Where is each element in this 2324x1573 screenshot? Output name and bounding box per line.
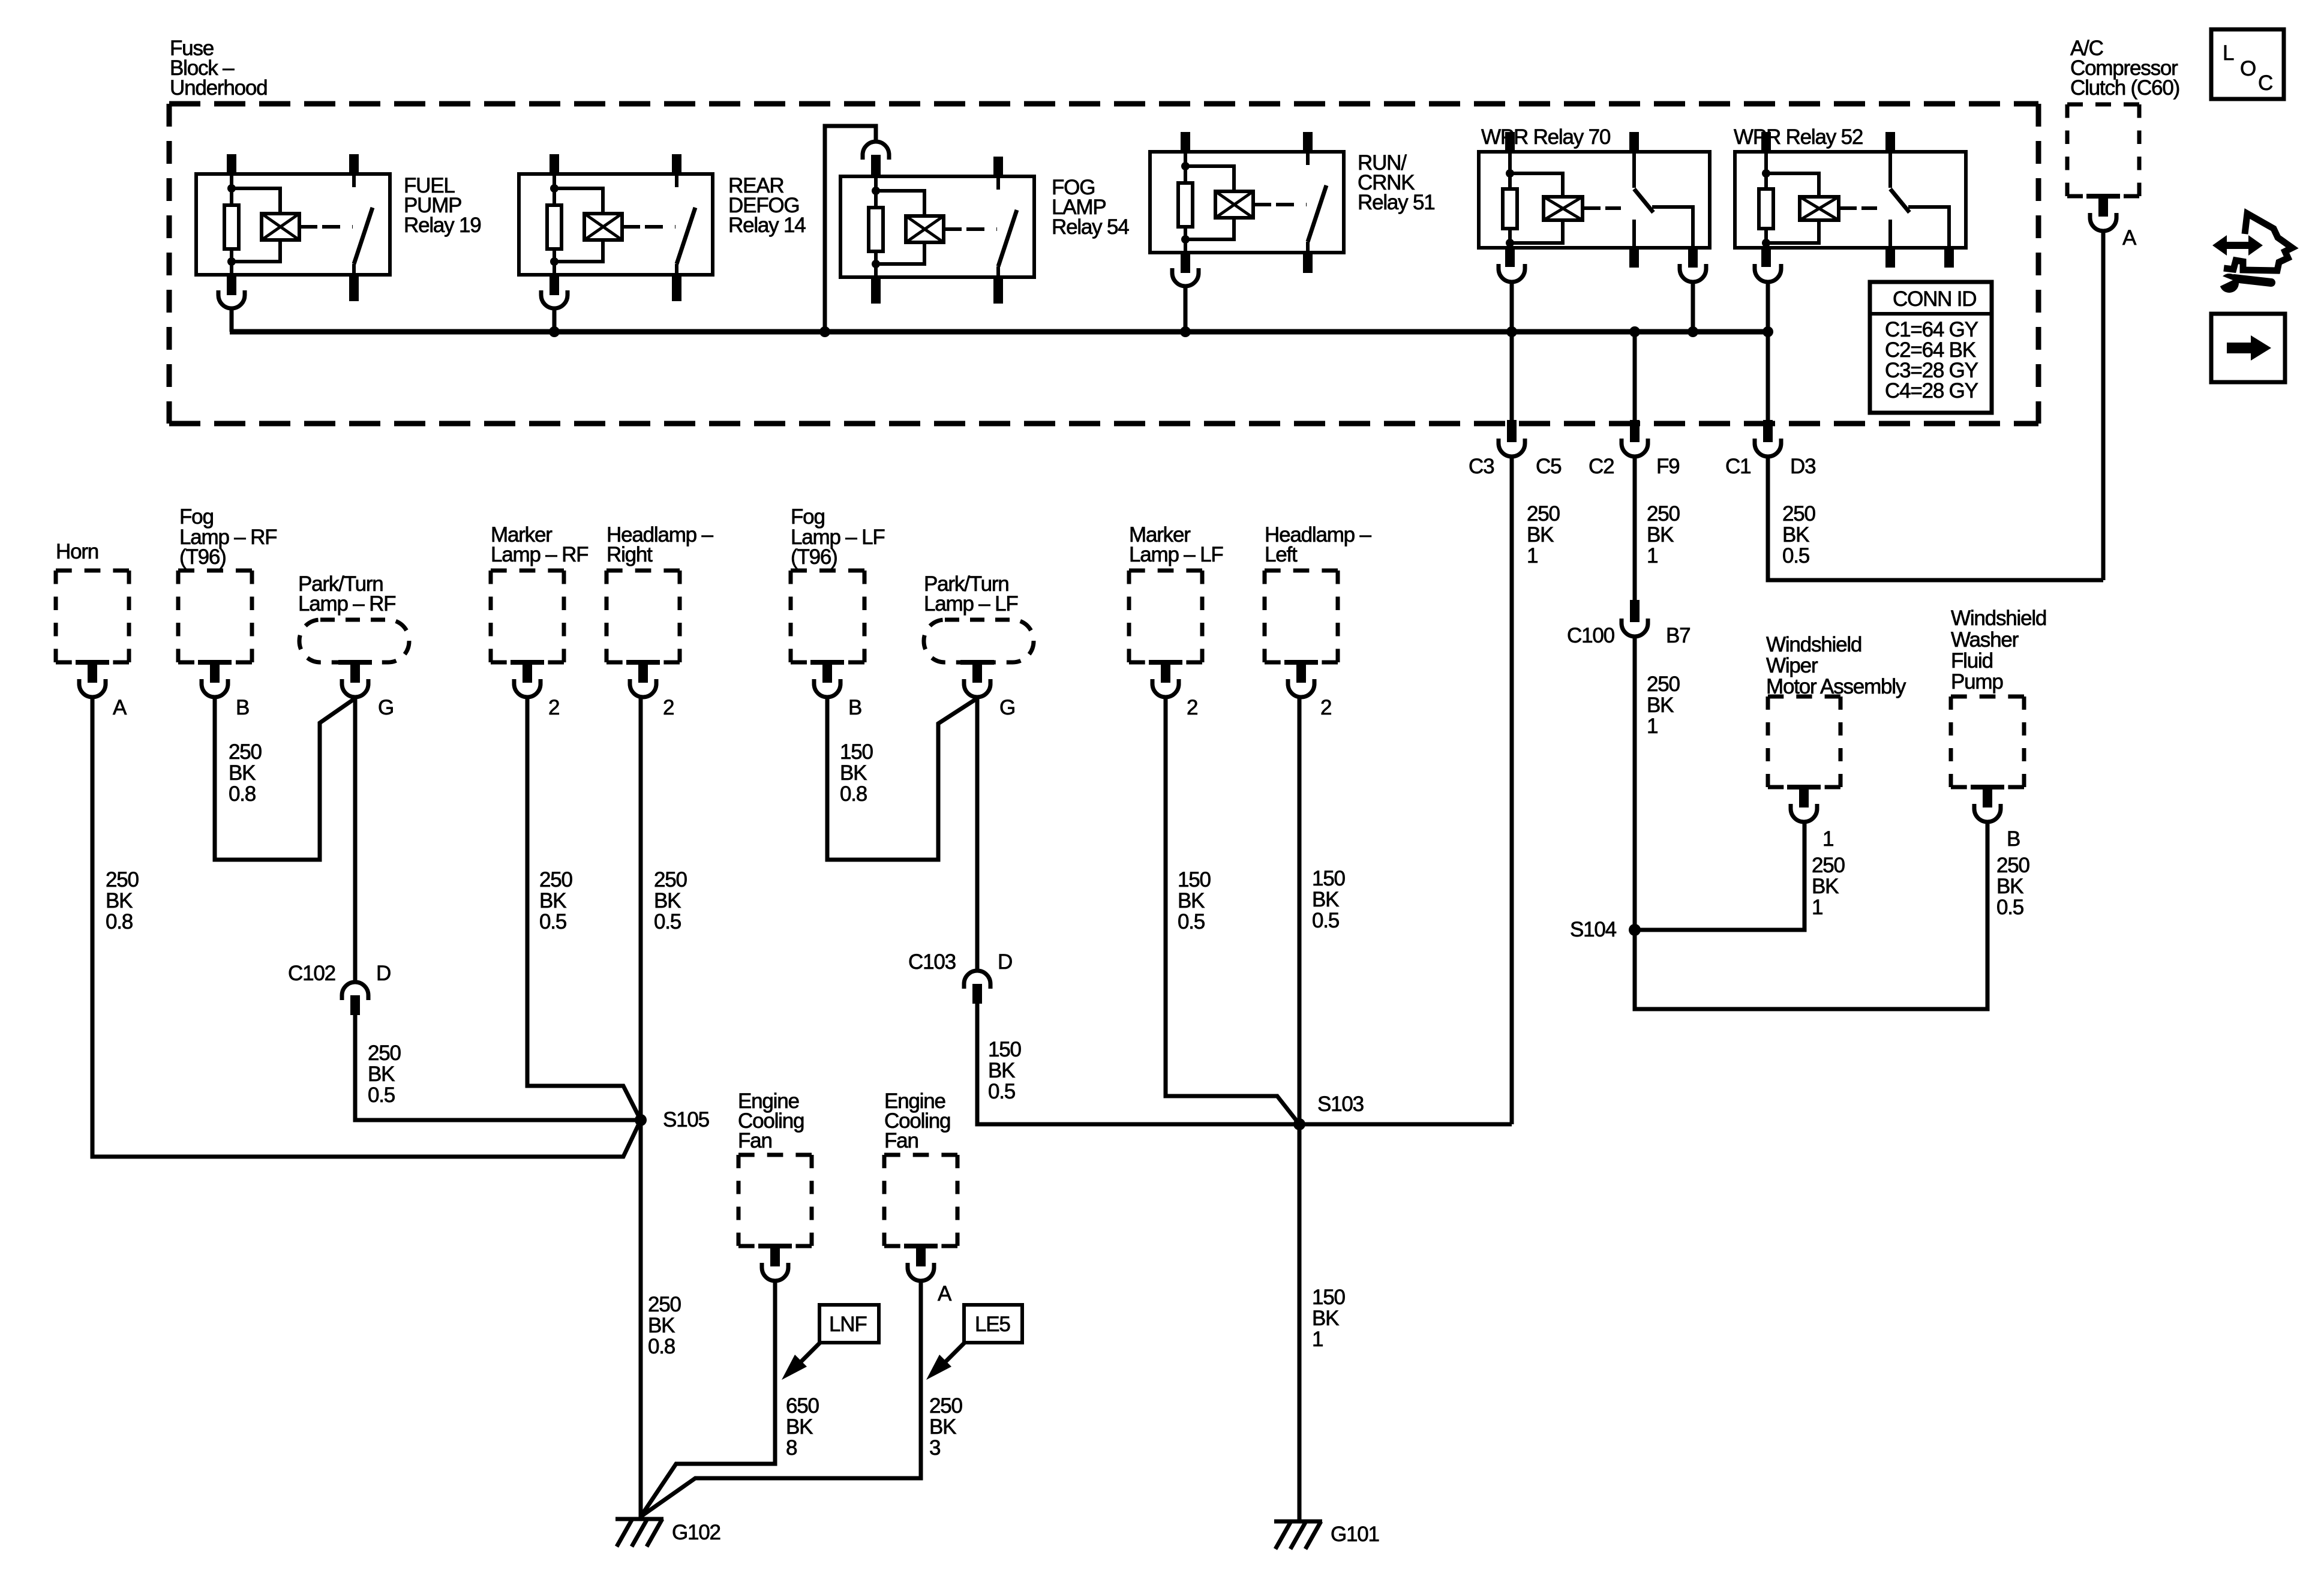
svg-text:LNF: LNF xyxy=(829,1313,867,1336)
svg-text:(T96): (T96) xyxy=(179,545,226,569)
svg-text:250: 250 xyxy=(368,1041,401,1065)
Headlamp Right label xyxy=(606,523,713,566)
svg-text:2: 2 xyxy=(548,696,559,719)
svg-text:Washer: Washer xyxy=(1951,628,2019,652)
wire riser from bus to relay 54 top xyxy=(825,126,876,332)
svg-text:G102: G102 xyxy=(672,1521,720,1544)
svg-text:G: G xyxy=(999,696,1015,719)
svg-text:Wiper: Wiper xyxy=(1766,654,1818,677)
Fog Lamp RF box xyxy=(178,571,252,697)
svg-text:G101: G101 xyxy=(1331,1523,1379,1546)
svg-text:150: 150 xyxy=(1312,1286,1346,1309)
service icon: double arrow xyxy=(2212,235,2263,256)
svg-text:0.5: 0.5 xyxy=(1312,909,1339,932)
connector below relay 14 xyxy=(541,290,568,308)
svg-text:BK: BK xyxy=(1996,875,2023,898)
relay 70 WPR xyxy=(1479,132,1710,268)
svg-text:D3: D3 xyxy=(1790,455,1815,478)
svg-text:Underhood: Underhood xyxy=(170,76,267,100)
svg-text:C4=28 GY: C4=28 GY xyxy=(1885,379,1978,403)
svg-text:0.8: 0.8 xyxy=(229,782,256,806)
relay 52 WPR xyxy=(1735,132,1966,268)
svg-text:0.5: 0.5 xyxy=(988,1080,1015,1103)
bus junction at x=1375 xyxy=(819,326,830,337)
svg-text:BK: BK xyxy=(654,889,681,912)
svg-text:BK: BK xyxy=(786,1415,813,1439)
Headlamp Right box xyxy=(606,571,680,697)
svg-text:Fluid: Fluid xyxy=(1951,649,1993,673)
bus junction at x=2520 xyxy=(1506,326,1517,337)
wire C103 to S103 (150 BK 0.5) xyxy=(977,1002,1299,1124)
svg-text:2: 2 xyxy=(663,696,674,719)
Headlamp Left box xyxy=(1265,571,1338,697)
svg-text:150: 150 xyxy=(1312,867,1346,890)
Marker Lamp RF label xyxy=(491,523,588,566)
wire headlamp left to S103 (150 BK 0.5) xyxy=(1298,697,1302,1124)
wire label 650 BK 8 (fan 1) xyxy=(786,1394,819,1460)
svg-text:150: 150 xyxy=(1178,868,1211,891)
svg-text:C100: C100 xyxy=(1567,624,1615,647)
wire C5 horizontal into S103 xyxy=(1299,1122,1512,1127)
svg-text:250: 250 xyxy=(648,1293,681,1316)
Windshield Washer Fluid Pump label xyxy=(1951,607,2046,694)
svg-text:Lamp – RF: Lamp – RF xyxy=(298,592,395,616)
wire label 250 BK 0.8 (S105-G102) xyxy=(648,1293,681,1358)
svg-text:Windshield: Windshield xyxy=(1766,633,1861,656)
wire relay 70 switch to ground bus xyxy=(1691,281,1695,332)
Engine Cooling Fan 1 box xyxy=(738,1155,812,1281)
svg-text:Windshield: Windshield xyxy=(1951,607,2046,630)
svg-text:BK: BK xyxy=(929,1415,956,1439)
svg-text:B7: B7 xyxy=(1666,624,1690,647)
CONN ID table xyxy=(1870,282,1992,413)
connector below relay 70 switch output xyxy=(1680,264,1706,282)
svg-text:250: 250 xyxy=(106,868,139,891)
connector C103 xyxy=(964,971,990,1004)
svg-text:S105: S105 xyxy=(663,1108,709,1131)
wire F9 down (250 BK 1) xyxy=(1633,455,1637,600)
Windshield Wiper Motor Assembly label xyxy=(1766,633,1906,698)
svg-text:B: B xyxy=(848,696,861,719)
svg-text:BK: BK xyxy=(648,1314,675,1337)
svg-text:1: 1 xyxy=(1647,544,1658,568)
svg-text:WPR Relay 52: WPR Relay 52 xyxy=(1734,125,1863,149)
splice S103 xyxy=(1293,1118,1305,1130)
wire label 250 BK 0.8 (fog RF) xyxy=(229,740,262,806)
connector below relay 51 xyxy=(1172,268,1199,286)
wire label 250 BK 0.8 (horn) xyxy=(106,868,139,933)
svg-text:S104: S104 xyxy=(1570,918,1617,941)
relay 52 label xyxy=(1734,125,1863,149)
svg-text:BK: BK xyxy=(988,1059,1015,1082)
wire S104 to washer pump xyxy=(1635,821,1987,1009)
wire relay 19 to ground bus xyxy=(230,307,234,332)
wire relay 52 coil to ground bus xyxy=(1766,281,1770,332)
service icon: car outline xyxy=(2224,214,2292,271)
LE5 tag box xyxy=(964,1305,1022,1343)
svg-text:D: D xyxy=(376,962,391,985)
wire label 150 BK 0.5 (C103) xyxy=(988,1038,1022,1103)
wire C5 down (250 BK 1) xyxy=(1510,455,1514,1124)
svg-text:Clutch (C60): Clutch (C60) xyxy=(2070,76,2179,100)
svg-text:O: O xyxy=(2240,57,2256,80)
Engine Cooling Fan 2 box xyxy=(884,1155,957,1281)
wire horn to S105 (250 BK 0.8) xyxy=(92,697,641,1157)
svg-text:0.5: 0.5 xyxy=(539,910,566,933)
svg-text:3: 3 xyxy=(929,1436,940,1460)
wire C102 to S105 (250 BK 0.5) xyxy=(355,1014,641,1120)
bus junction at x=2725 xyxy=(1629,326,1640,337)
svg-text:C102: C102 xyxy=(288,962,335,985)
Fog Lamp LF box xyxy=(791,571,864,697)
svg-text:A: A xyxy=(113,696,127,719)
wire label 250 BK 1 (C5) xyxy=(1527,502,1560,568)
svg-text:BK: BK xyxy=(1812,875,1839,898)
wire B7 down to S104 (250 BK 1) xyxy=(1633,635,1637,930)
svg-text:Fan: Fan xyxy=(884,1129,918,1152)
svg-text:0.5: 0.5 xyxy=(1782,544,1809,568)
wire park/turn RF down to C102 xyxy=(353,697,358,982)
svg-text:BK: BK xyxy=(1782,523,1809,547)
svg-text:F9: F9 xyxy=(1656,455,1679,478)
connector of park/turn LF xyxy=(960,662,994,697)
fuse block boundary (dashed) xyxy=(169,104,2038,424)
connector below relay 52 coil xyxy=(1755,264,1781,282)
wire park/turn LF down to C103 xyxy=(975,697,980,971)
wire A/C clutch down xyxy=(2101,231,2106,580)
wire label 250 BK 0.5 (C102) xyxy=(368,1041,401,1107)
connector C3/C5 xyxy=(1499,332,1525,457)
bus junction at x=2822 xyxy=(1688,326,1698,337)
svg-text:250: 250 xyxy=(929,1394,963,1418)
svg-text:Horn: Horn xyxy=(56,540,98,563)
svg-text:8: 8 xyxy=(786,1436,797,1460)
wire fog lamp LF to park/turn LF G (150 BK 0.8) xyxy=(827,697,977,860)
wire label 150 BK 0.5 (headlamp L) xyxy=(1312,867,1346,932)
svg-text:0.5: 0.5 xyxy=(368,1083,395,1107)
svg-text:250: 250 xyxy=(229,740,262,764)
connector above relay 54 xyxy=(863,142,889,176)
wire S104 to wiper motor xyxy=(1635,821,1804,930)
svg-text:BK: BK xyxy=(229,761,256,785)
Engine Cooling Fan 1 label xyxy=(738,1089,804,1152)
ground G102 xyxy=(615,1519,663,1547)
relay 51 label xyxy=(1358,151,1435,214)
svg-text:CONN ID: CONN ID xyxy=(1893,287,1976,311)
svg-text:150: 150 xyxy=(840,740,873,764)
wire marker RF to S105 (250 BK 0.5) xyxy=(527,697,641,1120)
wire label 250 BK 1 (wiper) xyxy=(1812,854,1845,919)
svg-text:1: 1 xyxy=(1822,827,1833,851)
wire label 250 BK 0.5 (washer) xyxy=(1996,854,2030,919)
relay 14 REAR DEFOG xyxy=(519,154,713,301)
Park/Turn Lamp RF outline (dashed) xyxy=(299,620,409,662)
Park/Turn Lamp RF label xyxy=(298,572,395,616)
svg-text:LE5: LE5 xyxy=(975,1313,1010,1336)
svg-text:250: 250 xyxy=(539,868,573,891)
A/C Compressor Clutch (C60) label xyxy=(2070,37,2179,100)
splice S105 xyxy=(635,1114,647,1126)
svg-text:250: 250 xyxy=(1647,502,1680,526)
connector C1/D3 xyxy=(1755,332,1781,457)
svg-text:250: 250 xyxy=(1647,673,1680,696)
svg-text:BK: BK xyxy=(1527,523,1554,547)
Park/Turn Lamp LF label xyxy=(924,572,1018,616)
svg-text:Left: Left xyxy=(1265,543,1298,566)
Fog Lamp RF label xyxy=(179,505,277,569)
svg-text:Lamp – LF: Lamp – LF xyxy=(1129,543,1223,566)
wire label 250 BK 0.5 (D3) xyxy=(1782,502,1816,568)
svg-text:B: B xyxy=(2007,827,2020,851)
relay 19 label xyxy=(404,174,481,237)
splice S104 xyxy=(1629,924,1641,936)
Marker Lamp LF label xyxy=(1129,523,1223,566)
LNF tag box xyxy=(819,1305,879,1343)
bus junction at x=1976 xyxy=(1180,326,1191,337)
relay 70 label xyxy=(1481,125,1611,149)
wire relay 51 to ground bus xyxy=(1184,285,1188,332)
relay 54 label xyxy=(1052,176,1129,239)
Park/Turn Lamp LF outline (dashed) xyxy=(924,620,1034,662)
Windshield Wiper Motor Assembly box xyxy=(1768,697,1840,822)
svg-text:G: G xyxy=(378,696,394,719)
wire relay 70 coil to ground bus xyxy=(1510,281,1514,332)
svg-text:0.8: 0.8 xyxy=(106,910,133,933)
ground G101 xyxy=(1274,1521,1322,1549)
connector C102 xyxy=(342,982,368,1015)
svg-text:L: L xyxy=(2223,41,2234,65)
svg-text:150: 150 xyxy=(988,1038,1022,1061)
svg-text:WPR Relay 70: WPR Relay 70 xyxy=(1481,125,1611,149)
svg-text:S103: S103 xyxy=(1317,1092,1364,1116)
svg-text:D: D xyxy=(998,950,1012,974)
svg-text:0.5: 0.5 xyxy=(654,910,681,933)
svg-text:Pump: Pump xyxy=(1951,670,2003,694)
wire label 250 BK 3 (fan 2) xyxy=(929,1394,963,1460)
svg-text:0.5: 0.5 xyxy=(1996,896,2023,919)
svg-text:250: 250 xyxy=(1527,502,1560,526)
svg-text:1: 1 xyxy=(1527,544,1538,568)
relay 51 RUN/CRNK xyxy=(1150,132,1344,273)
svg-text:BK: BK xyxy=(840,761,867,785)
relay 14 label xyxy=(728,174,806,237)
wire fan 1 to G102 (650 BK 8) xyxy=(641,1281,775,1517)
Horn box xyxy=(56,571,129,697)
svg-text:B: B xyxy=(236,696,249,719)
svg-text:A: A xyxy=(938,1282,952,1305)
svg-text:BK: BK xyxy=(1312,888,1339,911)
wire label 250 BK 1 (B7) xyxy=(1647,673,1680,738)
svg-text:BK: BK xyxy=(1647,694,1674,717)
svg-text:Relay 14: Relay 14 xyxy=(728,214,806,237)
svg-text:250: 250 xyxy=(654,868,687,891)
svg-text:BK: BK xyxy=(106,889,133,912)
LE5 arrow xyxy=(926,1343,965,1380)
svg-text:2: 2 xyxy=(1320,696,1331,719)
svg-text:Relay 19: Relay 19 xyxy=(404,214,481,237)
wire marker LF to S103 (150 BK 0.5) xyxy=(1166,697,1299,1124)
wire fan 2 to G102 (250 BK 3) xyxy=(641,1281,921,1517)
svg-text:BK: BK xyxy=(368,1062,395,1086)
Marker Lamp RF box xyxy=(491,571,564,697)
connector C2/F9 xyxy=(1622,332,1648,457)
svg-text:250: 250 xyxy=(1812,854,1845,877)
Fog Lamp LF label xyxy=(791,505,885,569)
svg-text:Right: Right xyxy=(606,543,653,566)
wire fog lamp RF to park/turn G (250 BK 0.8) xyxy=(215,697,355,860)
svg-text:0.5: 0.5 xyxy=(1178,910,1205,933)
wire label 250 BK 0.5 (marker RF) xyxy=(539,868,573,933)
svg-text:A: A xyxy=(2122,226,2137,250)
Headlamp Left label xyxy=(1265,523,1371,566)
svg-text:BK: BK xyxy=(1178,889,1205,912)
svg-text:C1: C1 xyxy=(1725,455,1750,478)
svg-text:C5: C5 xyxy=(1536,455,1561,478)
svg-text:250: 250 xyxy=(1996,854,2030,877)
next-page arrow box xyxy=(2211,314,2285,382)
wire S105 to G102 (250 BK 0.8) xyxy=(639,1120,643,1519)
ground bus wire inside fuse block xyxy=(230,329,1768,335)
LNF arrow xyxy=(782,1343,820,1380)
svg-text:C2: C2 xyxy=(1589,455,1614,478)
svg-text:650: 650 xyxy=(786,1394,819,1418)
svg-text:250: 250 xyxy=(1782,502,1816,526)
svg-text:C: C xyxy=(2258,71,2272,95)
svg-text:Fan: Fan xyxy=(738,1129,772,1152)
svg-text:1: 1 xyxy=(1312,1328,1323,1351)
relay 19 FUEL PUMP xyxy=(196,154,390,301)
wire label 150 BK 0.8 (fog LF) xyxy=(840,740,873,806)
fuse block label xyxy=(170,37,267,100)
wire label 250 BK 1 (F9) xyxy=(1647,502,1680,568)
connector below relay 70 coil xyxy=(1499,264,1525,282)
connector below relay 19 xyxy=(218,290,245,308)
svg-text:C103: C103 xyxy=(908,950,956,974)
svg-text:1: 1 xyxy=(1647,715,1658,738)
svg-text:Lamp – RF: Lamp – RF xyxy=(491,543,588,566)
relay 54 FOG LAMP xyxy=(840,157,1034,304)
Marker Lamp LF box xyxy=(1129,571,1202,697)
service icon: wrench xyxy=(2216,274,2271,293)
wire headlamp right to S105 (250 BK 0.5) xyxy=(639,697,643,1120)
svg-text:2: 2 xyxy=(1187,696,1197,719)
wire relay 14 to ground bus xyxy=(553,307,557,332)
svg-text:0.8: 0.8 xyxy=(840,782,867,806)
svg-text:C3: C3 xyxy=(1469,455,1494,478)
A/C Compressor Clutch (C60) box xyxy=(2067,104,2139,231)
svg-text:Relay 51: Relay 51 xyxy=(1358,191,1435,214)
svg-text:0.8: 0.8 xyxy=(648,1335,675,1358)
Engine Cooling Fan 2 label xyxy=(884,1089,950,1152)
svg-text:BK: BK xyxy=(1312,1307,1339,1330)
svg-text:Relay 54: Relay 54 xyxy=(1052,215,1129,239)
svg-text:BK: BK xyxy=(539,889,566,912)
svg-text:Lamp – LF: Lamp – LF xyxy=(924,592,1018,616)
bus junction at x=2947 xyxy=(1762,326,1773,337)
wire S103 to G101 (150 BK 1) xyxy=(1298,1124,1302,1521)
svg-text:BK: BK xyxy=(1647,523,1674,547)
bus junction at x=924 xyxy=(549,326,560,337)
wire label 150 BK 1 (S103-G101) xyxy=(1312,1286,1346,1351)
wire label 250 BK 0.5 (headlamp R) xyxy=(654,868,687,933)
LOC legend box xyxy=(2211,29,2284,99)
wire D3 to A/C clutch xyxy=(1768,455,2103,580)
connector of park/turn RF xyxy=(338,662,372,697)
connector C100/B7 xyxy=(1622,600,1648,637)
wire label 150 BK 0.5 (marker LF) xyxy=(1178,868,1211,933)
Windshield Washer Fluid Pump box xyxy=(1951,697,2024,822)
svg-text:1: 1 xyxy=(1812,896,1822,919)
svg-text:(T96): (T96) xyxy=(791,545,837,569)
